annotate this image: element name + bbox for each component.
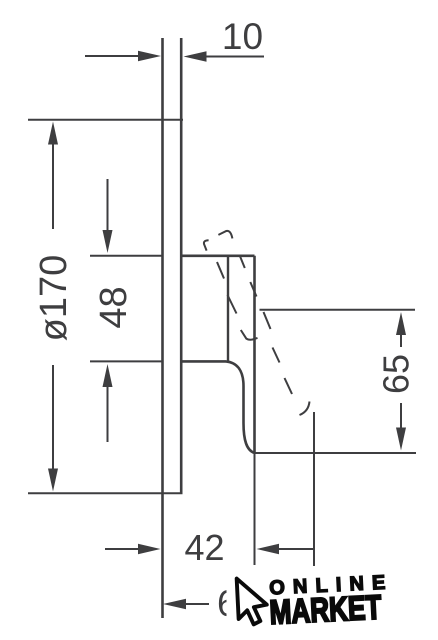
body step edge [182,360,226,363]
body ogee curve [226,361,255,453]
wall line right [180,38,183,494]
extension line lever tip vertical [313,412,315,566]
dim 6x left arrowhead [163,599,186,609]
body front edge [253,256,256,453]
extension line body front lower [254,453,256,565]
lever dash right edge 4 [273,348,280,363]
extension line 48 bottom left [90,360,162,362]
dim dia170 upper arrowhead [48,122,58,145]
dim 10 left arrowhead [138,51,161,61]
svg-text:42: 42 [184,527,224,568]
lever dash tip cap [300,402,310,416]
body inner vertical line [227,256,229,362]
lever dash right edge 5 [285,378,293,394]
dim 65 upper arrowhead (up) [396,312,406,335]
lever dash right edge 3 [264,312,271,329]
dim 10 left arrow shaft [85,55,140,57]
logo white plate [227,567,411,640]
extension line 65 bottom [255,452,417,454]
svg-text:MARKET: MARKET [269,589,383,631]
dim 48 upper shaft [107,179,109,231]
lever dash base hook [241,330,258,340]
dim 42 left arrow shaft [105,548,139,550]
extension line top (dia 170) [28,119,183,121]
svg-text:48: 48 [93,286,135,328]
dim dia170 lower shaft [52,365,54,470]
extension line 48 top left [90,255,162,257]
lever dash top cap corner [204,240,209,250]
lever dash right edge 1 [240,255,245,268]
dim 65 lower arrowhead (down) [396,428,406,451]
dim 65 lower shaft [400,403,402,428]
svg-text:ø170: ø170 [33,255,75,342]
dim 6x line shaft [184,603,209,605]
dim 10 right arrow shaft [206,56,264,58]
dim 48 lower arrowhead (up) [103,364,113,387]
dim 65 upper shaft [400,334,402,347]
dim 48 lower shaft [107,386,109,442]
dim dia170 lower arrowhead [48,469,58,492]
dim dia170 upper shaft [52,143,54,229]
svg-text:10: 10 [222,16,263,57]
svg-text:65: 65 [376,354,417,394]
body top edge [182,255,255,258]
dim 10 right arrowhead [184,51,207,61]
extension line bottom (dia 170) [28,492,183,494]
dim 42 right arrow shaft [278,548,313,550]
lever dash left edge 2 [228,295,237,314]
extension line 65 top [260,309,416,311]
dim 42 left arrowhead [138,544,161,554]
dim 48 upper arrowhead (down) [103,230,113,253]
lever dash top cap right [218,231,232,239]
dim 42 right arrowhead [257,544,280,554]
logo group [237,571,396,633]
lever dash right edge 2 [250,282,256,297]
wall line left [161,38,164,618]
logo cursor arrow [237,577,268,625]
lever dash left edge 1 [217,262,224,279]
